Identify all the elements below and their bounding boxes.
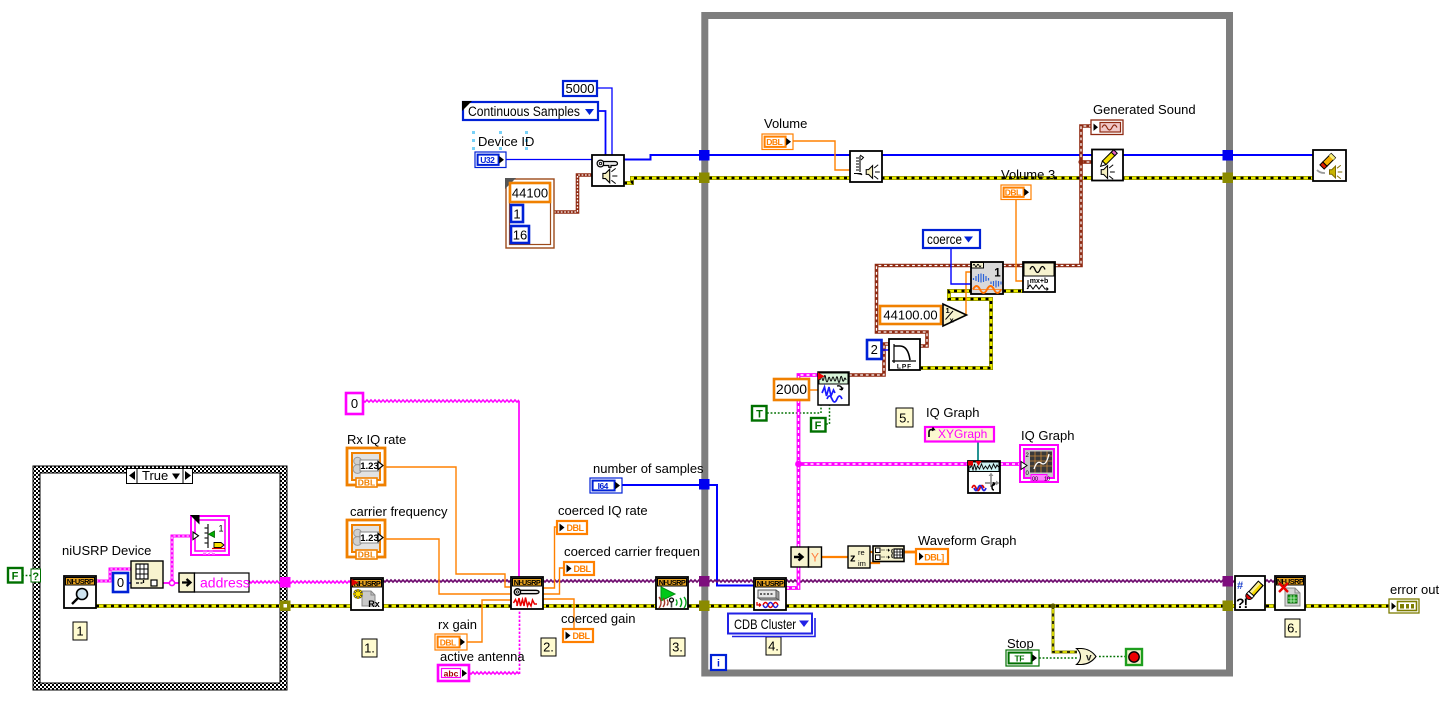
wire fetch data out to Y bbox=[786, 567, 799, 588]
iteration terminal i bbox=[711, 655, 726, 670]
svg-text:?: ? bbox=[32, 571, 39, 583]
wire error main bottom bbox=[96, 604, 1389, 608]
knob control carrier frequency bbox=[347, 520, 385, 560]
wire continuous samples to sound configure bbox=[598, 111, 606, 155]
wire mx+b out to Generated Sound bbox=[1055, 126, 1091, 266]
svg-text:TF: TF bbox=[1015, 653, 1025, 663]
wire 2000 to sine generator bbox=[809, 389, 818, 391]
lowpass filter LPF icon bbox=[889, 339, 920, 371]
svg-text:5.: 5. bbox=[899, 411, 910, 426]
wire coerced carrier frequency bbox=[543, 568, 564, 594]
indicator terminal coerced gain bbox=[563, 629, 593, 642]
tunnel error loop left top bbox=[699, 173, 710, 184]
knob control Rx IQ rate bbox=[347, 448, 385, 488]
svg-text:coerced carrier frequen: coerced carrier frequen bbox=[564, 544, 700, 559]
string constant 0 bbox=[346, 393, 363, 414]
svg-text:CDB Cluster: CDB Cluster bbox=[734, 616, 796, 632]
indicator terminal error out bbox=[1389, 599, 1419, 613]
boolean constant T bbox=[752, 406, 767, 421]
niUSRP initiate icon bbox=[656, 577, 688, 609]
svg-text:I64: I64 bbox=[598, 481, 609, 491]
svg-text:1.23: 1.23 bbox=[360, 533, 379, 544]
string control active antenna bbox=[438, 665, 469, 681]
svg-text:XYGraph: XYGraph bbox=[938, 427, 987, 441]
wire F to case selector bbox=[22, 575, 31, 577]
wire LPF out to filter1 bbox=[877, 266, 972, 347]
svg-text:IQ Graph: IQ Graph bbox=[1021, 428, 1074, 443]
svg-text:IQ Graph: IQ Graph bbox=[926, 405, 979, 420]
wire error top inside loop bbox=[624, 178, 1223, 183]
wire 44100 cluster to sound configure bbox=[554, 175, 592, 212]
svg-text:5000: 5000 bbox=[566, 81, 595, 96]
string constant address bbox=[195, 573, 250, 592]
wire IQ data to Build XY Graph bbox=[799, 462, 969, 466]
svg-text:1.: 1. bbox=[364, 641, 375, 656]
wire 5000 to sound configure bbox=[597, 88, 612, 155]
svg-text:LPF: LPF bbox=[897, 364, 912, 371]
svg-text:abc: abc bbox=[444, 669, 459, 679]
wire 2 to LPF bbox=[881, 349, 889, 351]
wire Y to complex to re-im bbox=[821, 556, 849, 558]
simple error handler icon bbox=[1235, 576, 1265, 611]
svg-text:mx+b: mx+b bbox=[1030, 278, 1048, 285]
svg-text:v: v bbox=[1086, 653, 1092, 664]
wire error top right of loop bbox=[1233, 176, 1313, 180]
svg-text:NI·USRP: NI·USRP bbox=[514, 578, 541, 587]
wire number of samples to fetch bbox=[622, 485, 754, 586]
build cluster array icon bbox=[873, 546, 904, 562]
svg-text:3.: 3. bbox=[672, 640, 683, 655]
svg-text:0: 0 bbox=[117, 575, 124, 590]
tunnel error case bbox=[280, 601, 291, 612]
wire coerced IQ rate bbox=[543, 527, 557, 588]
case structure frame bbox=[33, 466, 287, 690]
wire Volume to set volume icon bbox=[793, 141, 850, 170]
svg-text:0: 0 bbox=[351, 396, 358, 411]
svg-text:coerced gain: coerced gain bbox=[561, 611, 635, 626]
wire rx gain to configure signal bbox=[467, 600, 511, 642]
svg-text:NI·USRP: NI·USRP bbox=[757, 579, 784, 588]
svg-text:Rx: Rx bbox=[368, 599, 380, 609]
svg-text:DBL: DBL bbox=[358, 550, 375, 560]
index array icon bbox=[131, 561, 163, 588]
wire device names to index array bbox=[96, 569, 131, 581]
wire Rx IQ rate to configure signal bbox=[385, 467, 511, 587]
niUSRP close session icon bbox=[1275, 576, 1305, 610]
svg-text:Rx IQ rate: Rx IQ rate bbox=[347, 432, 406, 447]
wire branch to sound write bbox=[1081, 160, 1092, 164]
niUSRP find devices icon bbox=[64, 576, 96, 608]
free label 1. bbox=[362, 639, 377, 657]
svg-text:i: i bbox=[717, 658, 720, 670]
tunnel error loop right top bbox=[1223, 173, 1234, 184]
constant 44100.00 bbox=[880, 306, 941, 324]
wire carrier frequency to configure signal bbox=[385, 539, 511, 594]
indicator terminal Waveform Graph DBL array bbox=[916, 549, 948, 564]
indicator terminal Generated Sound waveform bbox=[1091, 120, 1123, 135]
junction waveform wire bbox=[1078, 159, 1083, 164]
wire coerce to filter1 bbox=[951, 248, 971, 284]
svg-text:address: address bbox=[200, 575, 250, 591]
get waveform components Y icon bbox=[791, 547, 822, 567]
control terminal Volume 3 DBL bbox=[1001, 185, 1031, 200]
niUSRP create rx session icon bbox=[351, 578, 383, 610]
express VI scaling mx+b bbox=[1023, 262, 1055, 292]
svg-text:1: 1 bbox=[946, 306, 950, 315]
svg-text:error out: error out bbox=[1390, 582, 1440, 597]
wire Volume 3 to mx+b bbox=[1016, 200, 1023, 281]
wire Build XY Graph to IQ Graph bbox=[1000, 462, 1020, 466]
svg-text:U32: U32 bbox=[480, 155, 495, 165]
indicator terminal coerced IQ rate bbox=[557, 521, 587, 534]
case selector label "True" bbox=[127, 468, 193, 484]
svg-text:2000: 2000 bbox=[776, 381, 807, 397]
svg-text:DBL: DBL bbox=[358, 478, 375, 488]
svg-text:active antenna: active antenna bbox=[440, 649, 525, 664]
wire address string (magenta wavy) bbox=[249, 581, 351, 583]
express VI filter 1 bbox=[971, 262, 1003, 294]
svg-text:Volume 3: Volume 3 bbox=[1001, 167, 1055, 182]
svg-text:1: 1 bbox=[219, 524, 224, 534]
tunnel number of samples bbox=[699, 479, 710, 490]
string conversion arrow icon bbox=[179, 573, 195, 592]
control terminal number of samples I64 bbox=[590, 478, 622, 493]
wire active antenna string to configure signal bbox=[469, 672, 519, 674]
svg-text:Volume: Volume bbox=[764, 116, 807, 131]
junction string wire bbox=[169, 580, 174, 585]
constant 0 in case bbox=[113, 573, 128, 592]
free label 6. bbox=[1285, 619, 1300, 637]
svg-text:DBL: DBL bbox=[440, 637, 456, 647]
wire T to sine generator bbox=[767, 405, 821, 413]
constant 2 bbox=[867, 340, 882, 359]
svg-text:44100.00: 44100.00 bbox=[883, 308, 937, 323]
tunnel error loop left bottom bbox=[699, 601, 710, 612]
complex to re/im icon bbox=[848, 546, 870, 568]
svg-text:1: 1 bbox=[994, 268, 1001, 280]
svg-text:10: 10 bbox=[1044, 477, 1050, 483]
wire sound task id main bbox=[624, 155, 1223, 160]
free label 5. bbox=[896, 408, 913, 427]
svg-text:Waveform Graph: Waveform Graph bbox=[918, 533, 1017, 548]
svg-text:DBL: DBL bbox=[573, 631, 591, 641]
svg-text:1: 1 bbox=[76, 624, 83, 639]
svg-text:re: re bbox=[858, 548, 865, 557]
wire error branch to Or gate bbox=[1053, 606, 1077, 652]
ring constant CDB Cluster bbox=[728, 614, 815, 637]
wire 0 to index array bbox=[128, 582, 131, 584]
wire im to build cluster array bbox=[870, 561, 879, 563]
svg-text:im: im bbox=[858, 559, 866, 568]
loop condition stop button bbox=[1126, 649, 1142, 665]
case selector terminal ? bbox=[31, 569, 41, 583]
svg-text:DBL: DBL bbox=[766, 137, 782, 147]
boolean constant F (outside case) bbox=[8, 568, 23, 583]
sound output configure icon bbox=[592, 155, 624, 186]
tunnel task id loop right bbox=[1223, 150, 1234, 161]
wire 0 string to configure signal bbox=[363, 400, 519, 402]
wire re to build cluster array bbox=[870, 551, 874, 553]
svg-text:Device ID: Device ID bbox=[478, 134, 534, 149]
svg-text:?!: ?! bbox=[1236, 595, 1248, 611]
sine waveform generator icon bbox=[818, 372, 849, 405]
svg-text:DBL: DBL bbox=[567, 523, 585, 533]
wire IQ data up to sine generator bbox=[799, 375, 819, 547]
wire Or gate to loop stop bbox=[1099, 656, 1126, 658]
svg-text:T: T bbox=[756, 409, 763, 421]
tunnel session loop left bbox=[699, 576, 710, 587]
niUSRP fetch rx data icon bbox=[754, 578, 786, 610]
svg-text:NI·USRP: NI·USRP bbox=[659, 578, 686, 587]
svg-text:6.: 6. bbox=[1287, 621, 1298, 636]
sound set volume icon bbox=[850, 151, 882, 182]
wire XYGraph ref to Build XY Graph bbox=[977, 441, 979, 461]
while loop frame bbox=[705, 16, 1230, 674]
wire coerced gain bbox=[543, 599, 574, 630]
wire sound task id to clear bbox=[1233, 154, 1313, 156]
svg-text:Generated Sound: Generated Sound bbox=[1093, 102, 1196, 117]
free label 4. bbox=[766, 637, 781, 655]
svg-text:16: 16 bbox=[513, 228, 527, 243]
free label 3. bbox=[670, 638, 685, 656]
svg-text:1.23: 1.23 bbox=[360, 461, 379, 472]
svg-text:#: # bbox=[1237, 580, 1243, 592]
wire filter1 to scale mx+b bbox=[1003, 264, 1023, 268]
svg-text:DBL: DBL bbox=[1005, 188, 1021, 198]
sound output clear icon bbox=[1313, 150, 1346, 181]
express VI Build XY Graph bbox=[968, 461, 1000, 493]
indicator terminal coerced carrier frequency bbox=[564, 562, 594, 575]
svg-text:1: 1 bbox=[513, 207, 520, 222]
svg-text:44100: 44100 bbox=[512, 186, 548, 201]
tunnel error loop right bottom bbox=[1223, 601, 1234, 612]
enum constant coerce bbox=[923, 230, 980, 248]
wire niUSRP session (purple wavy) bbox=[351, 580, 1275, 582]
or gate bbox=[1077, 649, 1097, 665]
svg-text:2.: 2. bbox=[543, 640, 554, 655]
sound write icon bbox=[1092, 150, 1123, 181]
enum constant Continuous Samples bbox=[462, 101, 598, 120]
control terminal Stop TF bbox=[1006, 650, 1039, 666]
boolean constant F bbox=[811, 418, 826, 432]
wire error LPF to filter1 bbox=[920, 291, 991, 368]
svg-text:F: F bbox=[12, 571, 19, 583]
svg-text:Y: Y bbox=[811, 551, 819, 565]
svg-text:NI·USRP: NI·USRP bbox=[67, 577, 94, 586]
wire to device selector subVI bbox=[172, 536, 191, 583]
svg-text:carrier frequency: carrier frequency bbox=[350, 504, 448, 519]
svg-text:4.: 4. bbox=[768, 639, 779, 654]
label Device ID with selection dots bbox=[472, 131, 534, 150]
svg-text:z: z bbox=[850, 553, 856, 565]
svg-text:DBL: DBL bbox=[574, 564, 592, 574]
reciprocal 1/x bbox=[943, 304, 967, 326]
free label 2. bbox=[541, 638, 556, 656]
junction IQ data wire bbox=[795, 461, 802, 468]
subVI device selector bbox=[190, 515, 229, 555]
control terminal Device ID U32 bbox=[475, 152, 506, 168]
tunnel session loop right bbox=[1223, 576, 1234, 587]
wire device id U32 to sound configure bbox=[505, 159, 592, 161]
svg-text:NI·USRP: NI·USRP bbox=[354, 579, 381, 588]
niUSRP configure signal icon bbox=[511, 577, 543, 609]
constant 5000 bbox=[563, 81, 597, 96]
tunnel address case bbox=[280, 577, 291, 588]
svg-text:coerce: coerce bbox=[927, 232, 962, 247]
svg-text:F: F bbox=[815, 420, 822, 432]
svg-text:Stop: Stop bbox=[1007, 636, 1034, 651]
wire error filter1 to mx+b bbox=[1003, 289, 1023, 293]
svg-text:2: 2 bbox=[871, 342, 878, 357]
svg-text:number of samples: number of samples bbox=[593, 461, 704, 476]
svg-text:DBL]: DBL] bbox=[924, 553, 944, 563]
control terminal rx gain DBL bbox=[435, 634, 467, 650]
refnum constant XYGraph bbox=[925, 427, 994, 442]
tunnel task id loop left bbox=[699, 150, 710, 161]
wire sine generator to LPF bbox=[849, 344, 889, 375]
svg-text:niUSRP Device: niUSRP Device bbox=[62, 543, 151, 558]
svg-text:rx gain: rx gain bbox=[438, 617, 477, 632]
svg-text:coerced IQ rate: coerced IQ rate bbox=[558, 503, 648, 518]
svg-text:True: True bbox=[142, 468, 168, 483]
free label 1 bbox=[73, 622, 87, 640]
cluster constant 44100/1/16 bbox=[505, 178, 554, 248]
wire F to sine generator bbox=[826, 405, 830, 424]
constant 2000 bbox=[774, 379, 809, 400]
junction error wire bbox=[1050, 603, 1055, 608]
wire 1/x to filter1 bbox=[963, 272, 971, 315]
indicator terminal IQ Graph bbox=[1020, 445, 1058, 483]
control terminal Volume DBL bbox=[762, 134, 793, 150]
svg-text:00: 00 bbox=[1032, 477, 1038, 483]
svg-text:Continuous Samples: Continuous Samples bbox=[468, 104, 580, 119]
wire index array to string conversion bbox=[163, 582, 179, 584]
wire Stop to Or gate bbox=[1039, 657, 1077, 659]
wire array to Waveform Graph bbox=[904, 551, 916, 554]
